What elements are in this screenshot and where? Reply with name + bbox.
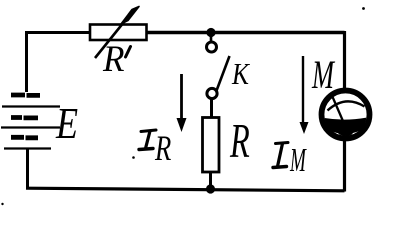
svg-text:E: E	[55, 99, 78, 148]
wire resistor to bottom	[209, 172, 212, 189]
scan speck	[132, 156, 135, 159]
battery E	[1, 95, 60, 149]
svg-text:R: R	[229, 113, 250, 167]
label IR	[139, 128, 171, 168]
label R'	[102, 38, 130, 79]
variable resistor R'	[90, 7, 147, 59]
current arrow IR	[177, 74, 187, 132]
svg-text:R: R	[102, 38, 124, 79]
scan speck	[1, 203, 3, 205]
wire right lower	[343, 139, 346, 192]
wire bottom	[26, 188, 345, 191]
label M	[311, 54, 335, 98]
label IM	[273, 140, 307, 178]
meter M	[322, 91, 370, 139]
svg-text:R: R	[154, 128, 171, 168]
node junction top	[206, 28, 215, 37]
wire top-left segment	[25, 31, 90, 34]
svg-text:K: K	[231, 58, 251, 92]
label R	[229, 113, 250, 167]
svg-text:M: M	[311, 54, 335, 98]
resistor R	[203, 118, 220, 173]
switch K	[207, 33, 230, 99]
wire top-right segment	[147, 31, 345, 34]
wire left upper	[25, 31, 28, 92]
label K	[231, 58, 251, 92]
node junction bottom	[206, 184, 215, 193]
current arrow M	[300, 56, 309, 134]
wire switch to resistor	[210, 99, 213, 119]
label E	[55, 99, 78, 148]
scan speck	[362, 7, 365, 10]
svg-text:M: M	[289, 140, 307, 178]
wire right upper	[343, 31, 346, 90]
wire left lower	[26, 148, 29, 190]
